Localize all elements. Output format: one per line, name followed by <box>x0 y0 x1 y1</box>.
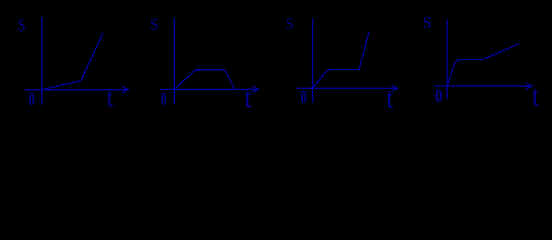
graph 1: horizontal t-axis <box>25 89 127 91</box>
graph 2: t-axis arrowhead <box>252 86 258 93</box>
svg-text:0: 0 <box>435 85 442 106</box>
graph 2: horizontal t-axis <box>160 88 257 90</box>
graph 1: vertical S-axis <box>41 18 43 105</box>
svg-text:0: 0 <box>301 88 307 108</box>
svg-text:S: S <box>150 17 159 35</box>
graph 4: curve fast-then-slow <box>447 44 518 86</box>
svg-text:t: t <box>387 81 394 114</box>
graph 4: vertical S-axis <box>446 19 448 99</box>
graph 2: vertical S-axis <box>173 19 175 104</box>
graph 2: trapezoid curve rise-plateau-return <box>174 70 234 90</box>
svg-text:S: S <box>423 13 432 32</box>
graph 3: t-axis arrowhead <box>391 85 397 92</box>
graph 3: vertical S-axis <box>312 18 314 102</box>
svg-text:0: 0 <box>161 89 167 110</box>
graph 3: horizontal t-axis <box>297 87 397 89</box>
graph 1: t-axis arrowhead <box>122 87 128 94</box>
svg-text:t: t <box>107 81 113 113</box>
svg-text:S: S <box>286 16 293 33</box>
graph 3: curve rise-plateau-rise <box>313 32 370 88</box>
svg-text:t: t <box>244 82 252 114</box>
graph 4: horizontal t-axis <box>435 85 531 87</box>
svg-text:S: S <box>18 17 26 36</box>
graph 1: curve slow-then-fast <box>42 33 103 90</box>
svg-text:0: 0 <box>29 90 35 110</box>
svg-text:t: t <box>532 80 539 112</box>
graph 4: t-axis arrowhead <box>526 83 532 90</box>
